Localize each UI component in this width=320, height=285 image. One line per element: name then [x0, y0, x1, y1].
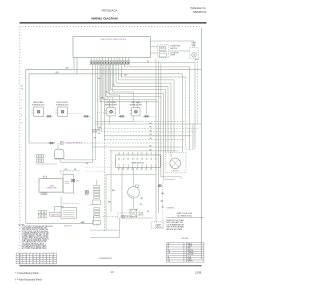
svg-text:2: 2	[21, 108, 22, 110]
latch dashed box 2	[152, 222, 164, 229]
latch switch dashed box	[118, 213, 133, 218]
svg-text:BLUE: BLUE	[188, 256, 192, 258]
svg-text:18: 18	[25, 258, 27, 260]
svg-text:18: 18	[46, 258, 48, 260]
door switch chain	[162, 181, 164, 230]
infinite switch S1 combs	[36, 155, 38, 158]
wire L1 bus crossing	[26, 68, 202, 70]
left bus vertical 1	[25, 69, 27, 223]
wire hook 179	[163, 178, 175, 180]
svg-text:18: 18	[52, 260, 54, 262]
thermostat dotted bottom	[39, 191, 61, 193]
wire harness c3 dashed	[101, 131, 195, 133]
svg-text:PILOT: PILOT	[85, 194, 89, 196]
EOC pin stubs	[90, 57, 92, 61]
center vertical v95 ext	[94, 124, 96, 160]
left bus vertical 2	[28, 74, 30, 143]
svg-text:18: 18	[19, 254, 21, 256]
vertical v111	[110, 150, 112, 212]
rocker box	[159, 52, 166, 57]
thermostat bump	[43, 176, 46, 179]
svg-text:3: 3	[21, 115, 22, 117]
svg-text:18: 18	[52, 262, 54, 264]
svg-text:Y: Y	[168, 254, 169, 256]
thermostat glyph	[72, 179, 75, 182]
wire stair 2	[124, 65, 189, 150]
right bus v182	[182, 74, 184, 153]
oven lamp DS1	[190, 47, 198, 59]
dotted border top	[20, 26, 202, 28]
bundle upper extensions	[155, 59, 157, 100]
svg-text:1: 1	[21, 100, 22, 102]
wire cam dashed	[121, 216, 130, 218]
terminal board pins bottom	[118, 167, 120, 170]
door switch mark 2	[161, 192, 164, 194]
chain top wire	[96, 180, 98, 185]
wire harness c6	[92, 146, 182, 148]
svg-text:LIGHT: LIGHT	[155, 225, 160, 227]
center vertical v92	[91, 65, 93, 147]
infinite switch S1 body	[55, 149, 64, 158]
wire bottom U	[90, 230, 119, 237]
bake element coil	[61, 208, 76, 219]
svg-text:+: +	[88, 205, 89, 207]
wire oven door switch row	[29, 142, 49, 144]
wire S1 top	[57, 143, 59, 149]
wire EOC to left bus N	[29, 57, 77, 74]
svg-text:YELLOW: YELLOW	[188, 254, 194, 256]
svg-text:18: 18	[25, 254, 27, 256]
svg-text:LIGHT SW: LIGHT SW	[167, 207, 174, 209]
svg-text:14: 14	[21, 89, 23, 91]
dotted border left	[19, 27, 21, 266]
wire stair 7	[111, 65, 166, 153]
right bus v158	[100, 65, 158, 214]
wire stair dashed 185	[121, 65, 185, 77]
wire E3 bottom stub	[108, 116, 110, 124]
wire E4 bottom stub	[133, 116, 135, 121]
wire stair 5	[116, 65, 171, 157]
svg-text:18: 18	[32, 260, 34, 262]
svg-text:18: 18	[46, 256, 48, 258]
bake riser	[60, 196, 62, 207]
wire pin to E3 b	[107, 65, 113, 108]
door switch glyph 1	[159, 185, 162, 187]
bottom border rule	[20, 265, 202, 266]
wire bottom 1	[103, 216, 118, 218]
wire pin to E4 b	[137, 101, 139, 108]
svg-text:18: 18	[39, 254, 41, 256]
svg-text:BK: BK	[168, 243, 170, 245]
svg-text:18: 18	[32, 258, 34, 260]
door switch mark 3	[161, 199, 164, 201]
svg-text:MOTOR: MOTOR	[172, 171, 179, 173]
wire harness c2 dashed	[97, 65, 99, 129]
svg-text:BLOCK: BLOCK	[92, 132, 98, 134]
svg-text:SURFACE UNIT: SURFACE UNIT	[105, 103, 117, 106]
wire pin to J3	[110, 65, 120, 114]
svg-text:LIGHT: LIGHT	[170, 55, 175, 57]
wire bottom long	[26, 222, 94, 224]
connector pair J4	[144, 115, 146, 117]
wire color table	[167, 242, 204, 244]
wire harness c7	[110, 150, 179, 152]
convection motor M2 enclosure	[166, 152, 187, 173]
svg-text:R: R	[168, 248, 169, 250]
bake top hook	[54, 207, 64, 212]
oven light switch S3 dashed box	[158, 45, 169, 58]
wire EOC to left bus L1	[26, 57, 74, 69]
wire stair 6	[113, 65, 168, 153]
wire stair 8	[108, 65, 163, 180]
svg-text:10: 10	[21, 86, 23, 88]
svg-text:18: 18	[46, 260, 48, 262]
bake element comb	[38, 211, 40, 214]
convection motor M2	[170, 158, 181, 169]
svg-text:18: 18	[46, 254, 48, 256]
surface element E3	[107, 108, 115, 116]
svg-text:18: 18	[32, 256, 34, 258]
surface element E2	[58, 107, 68, 117]
right bus v156	[103, 65, 156, 223]
connector pair J3	[120, 115, 122, 117]
right v193	[192, 124, 194, 149]
heater chain comb 2	[94, 208, 100, 210]
header rule	[20, 22, 207, 23]
svg-text:COLORS: COLORS	[181, 238, 188, 240]
svg-text:18: 18	[46, 262, 48, 264]
center vertical v101	[100, 65, 102, 132]
heater chain comb 1	[94, 185, 100, 187]
svg-text:SELECTOR: SELECTOR	[55, 159, 64, 161]
connector pair J5	[49, 142, 51, 144]
svg-text:316259527 K: 316259527 K	[99, 258, 113, 260]
svg-text:18: 18	[39, 256, 41, 258]
svg-text:18: 18	[19, 260, 21, 262]
right border bus	[200, 28, 202, 260]
wire pin to E4	[113, 65, 134, 108]
wire motor bottom	[133, 198, 135, 209]
wire harness c0	[95, 120, 133, 122]
wire lamp to bus	[169, 50, 190, 52]
terminal board TB1	[116, 155, 161, 167]
dashed h149	[186, 148, 193, 150]
svg-text:BR: BR	[168, 250, 170, 252]
wire harness c5 dashed	[104, 139, 185, 141]
interlock X symbol	[60, 141, 64, 145]
pilot glyph	[85, 191, 88, 194]
wire chain left	[90, 203, 93, 205]
svg-text:P1: P1	[94, 138, 96, 140]
dashed stub row B	[85, 171, 106, 173]
svg-text:Publication No.: Publication No.	[190, 7, 206, 10]
wire pin to J4	[146, 101, 148, 114]
wire harness c4	[104, 135, 191, 137]
dashed stub row A	[85, 166, 116, 168]
wire gauge table	[16, 252, 56, 254]
dotted link elements 1	[68, 112, 84, 114]
svg-text:SURFACE UNIT: SURFACE UNIT	[32, 103, 44, 106]
svg-text:18: 18	[52, 258, 54, 260]
svg-text:FEF352ACA: FEF352ACA	[102, 8, 118, 12]
door switch mark 4	[162, 206, 164, 208]
EOC connector strip P1	[90, 60, 130, 62]
thermostat right box	[63, 175, 74, 193]
svg-text:DOOR SW: DOOR SW	[64, 226, 72, 228]
svg-text:(BK): (BK)	[112, 190, 116, 192]
svg-text:SURFACE UNIT: SURFACE UNIT	[130, 103, 142, 106]
wire S1 comb lead	[36, 163, 57, 165]
svg-text:5995387134: 5995387134	[193, 11, 207, 14]
motor cam switch	[130, 209, 137, 217]
svg-text:18: 18	[32, 262, 34, 264]
dotted link elements 2	[97, 112, 106, 114]
wire N bus crossing	[29, 73, 183, 75]
svg-text:18: 18	[39, 260, 41, 262]
wire pin to E3	[104, 65, 109, 108]
bake dashed lead	[63, 203, 80, 205]
svg-text:WIRE COLOR CODE: WIRE COLOR CODE	[177, 213, 192, 215]
heater chain box 3	[93, 220, 101, 224]
svg-text:18: 18	[52, 256, 54, 258]
right dashed v195	[197, 62, 199, 125]
svg-text:18: 18	[52, 254, 54, 256]
wire stair 1	[127, 63, 195, 150]
enclosure corner L	[106, 175, 156, 230]
oven thermostat S2	[39, 179, 63, 193]
oven light switch contacts	[159, 46, 165, 50]
svg-text:12/99: 12/99	[195, 271, 202, 274]
svg-text:RED: RED	[188, 248, 191, 250]
svg-text:SWITCH: SWITCH	[170, 48, 177, 50]
svg-text:OVEN DOOR SWITCH: OVEN DOOR SWITCH	[66, 143, 83, 145]
svg-text:18: 18	[25, 256, 27, 258]
svg-text:GN: GN	[168, 261, 170, 263]
svg-text:18: 18	[25, 262, 27, 264]
surface element E4	[132, 108, 140, 116]
svg-text:* = Fast-Moving Parts: * = Fast-Moving Parts	[15, 272, 40, 275]
svg-text:GREEN: GREEN	[188, 261, 193, 263]
wire harness c1	[95, 65, 201, 124]
svg-text:GY: GY	[168, 259, 170, 261]
electronic oven control U1	[73, 37, 151, 58]
thermostat top dashed wires	[60, 170, 80, 172]
lock motor M1	[128, 187, 140, 199]
wire bottom 4	[118, 218, 120, 230]
connector pair J1	[47, 115, 49, 117]
svg-text:SURFACE UNIT: SURFACE UNIT	[56, 103, 68, 106]
svg-text:18: 18	[19, 262, 21, 264]
svg-text:18: 18	[19, 256, 21, 258]
bake element label box	[50, 212, 62, 216]
svg-text:UNLESS NOTED OTHER-: UNLESS NOTED OTHER-	[166, 220, 184, 222]
wire stair 4	[119, 65, 174, 153]
dotted link after J4	[151, 115, 157, 117]
wire motor top	[133, 167, 135, 186]
connector pair J2	[84, 115, 86, 117]
surface element E1	[34, 107, 44, 117]
vertical v122	[121, 167, 123, 218]
wire stair 9	[106, 65, 161, 177]
wire hook 177	[161, 177, 181, 179]
svg-text:WHITE: WHITE	[188, 246, 193, 248]
heater chain junction	[93, 200, 101, 205]
svg-text:† = Non-Illustrated Parts: † = Non-Illustrated Parts	[15, 278, 43, 281]
wire EOC to light cluster	[151, 46, 158, 48]
svg-text:WIRING DIAGRAM: WIRING DIAGRAM	[91, 17, 118, 21]
svg-text:BL: BL	[168, 256, 170, 258]
svg-text:18: 18	[25, 260, 27, 262]
center vertical v104 dashed	[103, 99, 105, 140]
wire S1 right 2	[61, 162, 93, 164]
svg-text:OR: OR	[168, 252, 170, 254]
thermostat teeth	[41, 192, 43, 194]
svg-text:4: 4	[21, 123, 22, 125]
svg-text:18: 18	[19, 258, 21, 260]
svg-text:18: 18	[39, 262, 41, 264]
wire S1 right 1	[64, 159, 95, 161]
svg-text:18: 18	[39, 258, 41, 260]
svg-text:BROWN: BROWN	[188, 250, 193, 252]
svg-text:18: 18	[32, 254, 34, 256]
svg-text:ELECTRONIC OVEN CONTROL: ELECTRONIC OVEN CONTROL	[101, 39, 127, 41]
